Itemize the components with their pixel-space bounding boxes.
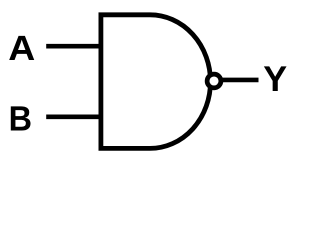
NAND gate U1 body (101, 15, 211, 149)
svg-text:Y: Y (263, 60, 287, 99)
inversion bubble (207, 74, 221, 88)
wire input A (46, 44, 101, 49)
svg-text:A: A (8, 29, 35, 68)
svg-text:B: B (9, 100, 32, 139)
wire output Y (220, 78, 259, 83)
wire input B (46, 114, 101, 119)
